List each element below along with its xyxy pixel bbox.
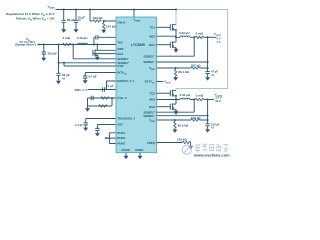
svg-text:PGND: PGND	[122, 148, 130, 152]
resistor 3mohm buck2 sense	[195, 94, 214, 101]
svg-text:FREQ: FREQ	[147, 141, 156, 145]
resistor 125k FREQ	[157, 137, 191, 146]
ground	[173, 77, 178, 80]
wire: SENSE3+	[59, 62, 117, 64]
IC right pin labels	[143, 25, 155, 145]
ground	[205, 129, 210, 132]
capacitor 220uF input	[42, 45, 57, 58]
ground	[174, 49, 179, 52]
ground PGND	[124, 153, 129, 160]
capacitor COUT1 47uF	[205, 37, 218, 77]
capacitor 0.1uF TRACK/SS	[75, 119, 116, 128]
svg-text:249 kΩ: 249 kΩ	[191, 116, 202, 120]
ground	[95, 133, 100, 136]
capacitor SS3	[95, 125, 116, 134]
ground	[56, 81, 61, 84]
svg-text:SW1: SW1	[149, 34, 156, 38]
ground	[74, 29, 79, 32]
wire: VFB2 divider	[157, 119, 208, 121]
wire: EXTVCC stub	[157, 80, 172, 85]
node VIN label	[15, 37, 40, 47]
op-amp U1 LTC3899 controller IC	[116, 10, 157, 153]
transistor Q4 top buck2	[170, 90, 177, 100]
wire: ITH3	[64, 63, 116, 66]
svg-text:BG2: BG2	[149, 105, 155, 109]
svg-text:56 µF: 56 µF	[62, 73, 70, 77]
svg-text:80.6 kΩ: 80.6 kΩ	[178, 124, 189, 128]
ground	[205, 77, 210, 80]
svg-text:www.elecfans.com: www.elecfans.com	[193, 152, 230, 157]
svg-text:SS3: SS3	[117, 123, 123, 127]
capacitor 0.1uF bootstrap SW123	[75, 81, 116, 92]
capacitor 4.7uF INTVCC	[83, 73, 116, 81]
svg-text:7 A: 7 A	[217, 40, 221, 44]
svg-text:357 kΩ: 357 kΩ	[191, 64, 202, 68]
svg-text:RUN2: RUN2	[117, 136, 125, 140]
ITH2 compensation	[88, 98, 113, 107]
svg-text:RUN1: RUN1	[117, 131, 125, 135]
ITH1 compensation	[88, 96, 117, 100]
svg-text:0.33 µH: 0.33 µH	[179, 31, 190, 35]
svg-text:(Startup Above 5 V): (Startup Above 5 V)	[15, 43, 40, 47]
svg-text:0.33 µH: 0.33 µH	[180, 93, 191, 97]
capacitor boost3 bootstrap	[94, 35, 116, 44]
wire: SW1	[157, 35, 177, 37]
node junctions on VBIAS rail	[63, 9, 65, 11]
ground	[61, 29, 66, 32]
svg-text:Follows VIN When VIN > 10V: Follows VIN When VIN > 10V	[16, 17, 55, 22]
svg-text:3 mΩ: 3 mΩ	[196, 31, 204, 35]
wire: BG2	[157, 106, 171, 108]
wire: TG1	[157, 26, 171, 28]
svg-text:OVLO: OVLO	[117, 20, 126, 24]
svg-text:TRACK/SS1, 2: TRACK/SS1, 2	[117, 117, 135, 121]
node VOUT2	[215, 92, 223, 102]
svg-text:0.1 µF: 0.1 µF	[106, 84, 114, 88]
capacitor COUT2 100uF	[205, 100, 219, 130]
ground	[83, 80, 88, 83]
svg-text:10 A: 10 A	[215, 99, 221, 103]
svg-text:220 µF: 220 µF	[48, 51, 58, 55]
svg-text:BOOST1, 2, 3: BOOST1, 2, 3	[117, 79, 134, 83]
svg-text:BG1: BG1	[149, 43, 155, 47]
ground	[85, 98, 90, 112]
capacitor 68uF	[62, 10, 75, 30]
node junction	[103, 20, 105, 22]
inductor 0.33uH buck1	[176, 31, 195, 37]
svg-text:SW3: SW3	[117, 47, 124, 51]
svg-text:3 mΩ: 3 mΩ	[63, 36, 71, 40]
svg-text:125 kΩ: 125 kΩ	[177, 137, 188, 141]
ground	[101, 30, 106, 33]
annotation: boost output regulation note	[6, 12, 54, 21]
wire: SENSE2+	[157, 100, 195, 113]
resistor 80.6k	[174, 120, 189, 130]
wire: VBIAS rail (boost output)	[56, 9, 177, 11]
svg-text:0.1 µF: 0.1 µF	[75, 123, 83, 127]
transistor Q5 bottom buck2	[170, 100, 176, 112]
ground	[172, 130, 177, 133]
inductor 0.33uH buck2	[176, 93, 195, 99]
resistor 3mohm boost sense	[62, 36, 71, 46]
svg-text:100 kΩ: 100 kΩ	[106, 24, 117, 28]
ground	[188, 146, 193, 149]
resistor 3mohm buck1 sense	[195, 31, 216, 38]
svg-text:4.7 µF: 4.7 µF	[88, 75, 97, 79]
svg-text:TG1: TG1	[150, 25, 156, 29]
svg-text:RUN3: RUN3	[117, 142, 125, 146]
transistor Q2 bottom buck1	[170, 37, 176, 49]
svg-text:86.1 kΩ: 86.1 kΩ	[178, 70, 189, 74]
svg-text:SW1, 2, 3: SW1, 2, 3	[75, 88, 88, 92]
wire: BG1	[157, 44, 171, 46]
node VOUT1	[214, 32, 222, 44]
capacitor 10uF	[74, 10, 85, 30]
svg-text:68 µF: 68 µF	[67, 18, 75, 22]
IC left pin labels	[117, 20, 143, 151]
transistor Q1 top buck1	[170, 24, 177, 37]
wire: RUN1 RUN2 RUN3 tie	[105, 133, 116, 144]
svg-text:TG2: TG2	[150, 91, 156, 95]
wire: SENSE3-	[73, 45, 116, 59]
ground	[174, 111, 179, 114]
svg-text:SGND: SGND	[135, 148, 143, 152]
resistor 100k	[103, 21, 117, 30]
wire: SENSE2-	[157, 115, 208, 117]
wire: BG3 gate	[93, 53, 116, 55]
watermark chinese text	[195, 144, 228, 152]
svg-text:LTC3899: LTC3899	[131, 43, 145, 47]
wire: VFB1 divider	[157, 67, 208, 69]
wire: SW3	[97, 49, 116, 51]
ground	[83, 128, 88, 131]
ground	[41, 58, 46, 61]
resistor 86.1k	[174, 68, 189, 77]
svg-text:499 kΩ: 499 kΩ	[93, 16, 104, 20]
svg-text:ITH3: ITH3	[117, 64, 124, 68]
ground SGND	[138, 153, 143, 160]
inductor 0.18uH boost	[77, 36, 88, 44]
svg-text:ITH1, 2: ITH1, 2	[117, 96, 127, 100]
svg-text:3 mΩ: 3 mΩ	[196, 94, 204, 98]
wire: SENSE1+	[157, 37, 195, 56]
wire: TG2	[157, 92, 171, 94]
wire: SENSE1-	[157, 61, 208, 63]
wire: FET Q1 drain riser (light)	[175, 10, 177, 25]
resistor 499k	[90, 10, 116, 23]
capacitor 56uF x2	[56, 45, 70, 81]
transistor Q3 boost FET	[93, 45, 98, 57]
resistor 357k	[191, 64, 202, 70]
wire: VBIAS feed to buck2 (light)	[176, 10, 228, 91]
svg-text:0.18 µH: 0.18 µH	[77, 36, 88, 40]
ground	[95, 57, 100, 60]
svg-text:BG3: BG3	[117, 52, 123, 56]
watermark logo	[182, 145, 191, 154]
resistor 249k	[191, 116, 202, 121]
svg-text:TG3: TG3	[117, 41, 123, 45]
svg-text:SW2: SW2	[149, 98, 156, 102]
wire: VIN rail	[38, 44, 116, 46]
wire: SW2	[157, 99, 177, 101]
